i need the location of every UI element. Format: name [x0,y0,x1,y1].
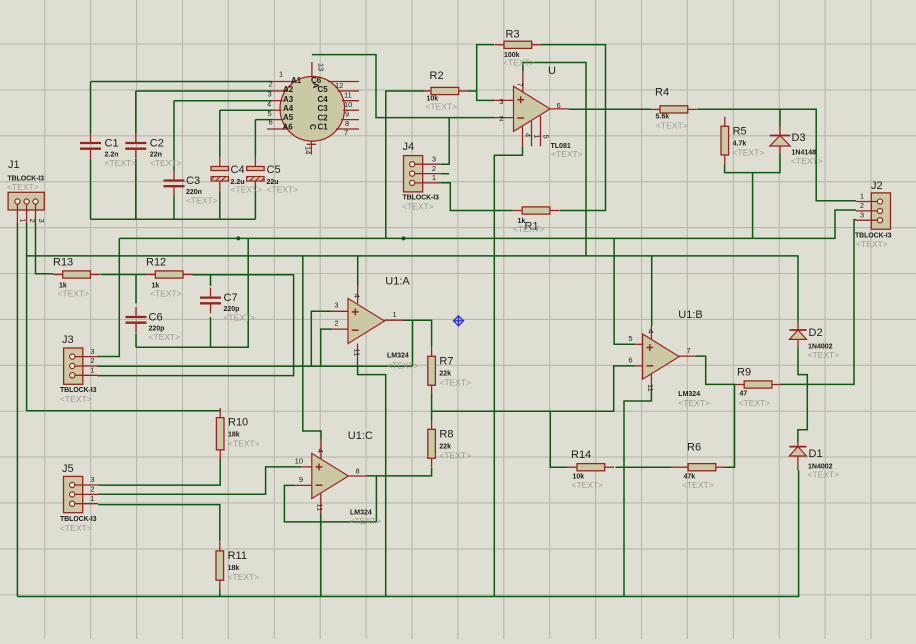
svg-text:9: 9 [299,475,303,484]
svg-text:3: 3 [499,97,503,106]
op-amp U1:A (LM324) [332,276,419,371]
svg-text:C2: C2 [318,114,329,123]
wire R4 to J2 pin1 [698,109,857,201]
svg-text:<TEXT>: <TEXT> [439,377,471,387]
svg-text:<TEXT>: <TEXT> [228,572,260,582]
wire RN pin4 to C4 top [220,109,272,111]
wire C5 top lead [254,120,256,157]
svg-text:C2: C2 [150,138,164,150]
svg-text:C4: C4 [318,95,329,104]
svg-text:R7: R7 [439,355,453,367]
svg-text:4: 4 [524,133,533,137]
svg-text:<TEXT>: <TEXT> [656,121,688,131]
svg-text:1: 1 [19,219,28,223]
op-amp U1:C (LM324) [295,430,382,526]
wire U1:A pin4 riser [357,256,359,286]
svg-text:C1: C1 [105,138,119,150]
capacitor C7 [200,288,255,323]
wire TL081 out to R4 [569,108,652,110]
wire U1:A out [403,320,432,347]
wire U1:C pin4 riser [303,256,321,440]
connector J1 (TBLOCK-I3) [7,159,46,223]
svg-text:R4: R4 [655,87,669,99]
wire C6 bottom lead [135,334,137,348]
wire C4 bottom lead [219,191,221,220]
wire U1:C fb drop [375,476,377,522]
svg-text:13: 13 [317,63,326,71]
svg-text:2: 2 [860,201,864,210]
connector J3 (TBLOCK-I3) [60,334,97,404]
resistor R8 [428,420,471,468]
svg-text:1: 1 [90,494,94,503]
wire C3 bottom lead [173,196,175,219]
svg-text:2: 2 [499,114,503,123]
svg-text:LM324: LM324 [678,391,700,398]
wire C6 top lead [135,275,137,304]
svg-text:R2: R2 [430,70,444,82]
wire RN pin1 to C1 top [91,81,273,83]
svg-text:<TEXT>: <TEXT> [150,289,182,299]
resistor R13 [53,257,100,299]
svg-text:R9: R9 [737,367,751,379]
svg-text:J2: J2 [871,180,883,192]
svg-text:C5: C5 [267,164,281,176]
svg-text:<TEXT>: <TEXT> [513,224,545,234]
resistor R3 [495,29,542,68]
wire J3 pin3 riser [97,238,119,356]
resistor R6 [672,442,725,491]
svg-text:8: 8 [356,467,360,476]
svg-text:6: 6 [269,117,273,126]
wire D2 bottom [798,348,807,385]
svg-text:<TEXT>: <TEXT> [739,398,771,408]
svg-text:14: 14 [303,146,312,154]
capacitor C2 [125,133,181,168]
wire ground bus [17,471,798,597]
svg-text:J3: J3 [62,334,74,346]
diode D2 [789,322,839,360]
svg-text:3: 3 [334,301,338,310]
svg-text:47: 47 [740,391,748,398]
svg-text:6: 6 [557,101,561,110]
svg-text:<TEXT>: <TEXT> [267,185,299,195]
svg-text:TBLOCK-I3: TBLOCK-I3 [60,387,97,394]
svg-text:4: 4 [316,449,325,453]
svg-text:4.7k: 4.7k [733,140,747,147]
resistor R1 [513,207,560,234]
svg-text:11: 11 [646,384,655,392]
wire J5 pin3 to R10 [98,459,220,486]
wire R13 to R12 [101,274,146,276]
svg-text:<TEXT>: <TEXT> [426,102,458,112]
wire J1 pin1 down [16,223,18,597]
svg-text:3: 3 [90,475,94,484]
svg-text:<TEXT>: <TEXT> [856,239,888,249]
svg-text:C3: C3 [186,175,200,187]
wire pin13 to TL081 pin2 [312,55,494,118]
resistor R2 [422,70,469,112]
svg-text:1: 1 [533,135,542,139]
svg-text:10: 10 [295,457,303,466]
wire R5 bottom [725,154,780,173]
svg-text:2: 2 [90,356,94,365]
svg-text:<TEXT>: <TEXT> [439,450,471,460]
svg-text:8: 8 [345,119,349,128]
svg-text:7: 7 [344,128,348,137]
svg-text:<TEXT>: <TEXT> [350,516,382,526]
wire J1 pin3 to R13 [36,223,54,274]
svg-text:5: 5 [628,334,632,343]
op-amp U1:B (LM324) [628,309,710,408]
wire RN pin5 to C5 top [255,119,272,121]
wire C5 bottom lead [254,191,256,220]
wire U1:B pin4 riser [651,256,653,326]
wire R11 bottom [219,590,221,597]
svg-text:4: 4 [267,99,271,108]
svg-text:A6: A6 [283,122,294,131]
wire C6C7 bottom link [136,238,248,347]
diode D3 [770,126,823,166]
wire R3 left to TL081 pin3 [477,45,494,101]
diode D1 [789,442,839,480]
svg-text:4: 4 [353,294,362,298]
svg-text:<TEXT>: <TEXT> [231,185,263,195]
capacitor C6 [126,307,181,342]
svg-text:<TEXT>: <TEXT> [682,480,714,490]
wire rail net2 [119,210,856,238]
wire J4 pin2 stub [440,173,449,175]
svg-text:7: 7 [687,346,691,355]
wire C1 top lead [90,82,92,134]
capacitor C3 [164,171,218,206]
wire U1:B pin5 [614,238,635,344]
resistor R14 [568,449,615,490]
svg-text:<TEXT>: <TEXT> [60,394,92,404]
svg-text:<TEXT>: <TEXT> [572,480,604,490]
svg-text:TBLOCK-I3: TBLOCK-I3 [60,516,97,523]
wire U1:A pin3 drop [311,311,332,366]
svg-text:U1:A: U1:A [385,276,410,288]
wire R6 right riser [723,384,734,467]
svg-text:R3: R3 [506,29,520,41]
connector J2 (TBLOCK-I3) [855,180,892,249]
svg-text:1: 1 [279,70,283,79]
resistor R10 [216,408,259,459]
wire U1:A pin2 drop [321,329,332,366]
svg-text:1: 1 [432,173,436,182]
svg-text:<TEXT>: <TEXT> [150,158,182,168]
svg-text:3: 3 [90,347,94,356]
svg-text:22k: 22k [439,370,451,377]
svg-text:3: 3 [268,89,272,98]
svg-text:2: 2 [90,485,94,494]
svg-text:<TEXT>: <TEXT> [387,361,419,371]
svg-text:1: 1 [860,192,864,201]
wire R7-R8 node to U1:B pin6 [432,366,636,420]
svg-text:J5: J5 [62,463,74,475]
svg-text:7: 7 [515,83,524,87]
svg-text:11: 11 [352,349,361,357]
svg-text:<TEXT>: <TEXT> [791,156,823,166]
capacitor C1 [80,133,136,168]
svg-text:<TEXT>: <TEXT> [551,149,583,159]
svg-text:2: 2 [28,219,37,223]
tube network U2 (14-pin round) [267,62,359,155]
svg-text:R12: R12 [146,257,166,269]
svg-text:9: 9 [345,110,349,119]
svg-text:A: A [311,83,320,89]
svg-text:22k: 22k [439,443,451,450]
wire U1:A out drop [412,320,414,366]
wire R14 to R6 [616,466,672,468]
svg-text:18k: 18k [228,565,240,572]
wire rail net1 to D2 [27,256,798,322]
svg-text:A4: A4 [283,104,294,113]
svg-text:R13: R13 [53,257,73,269]
svg-text:D2: D2 [809,327,823,339]
wire R2 left riser [386,91,424,238]
wire R5-D3 node drop [752,173,754,239]
svg-text:C4: C4 [231,164,245,176]
wire C2 bottom lead [135,159,137,219]
wire J1 pin2 down to R10 line [27,223,221,411]
svg-text:6: 6 [628,356,632,365]
connector J4 (TBLOCK-I3) [402,141,440,212]
svg-text:<TEXT>: <TEXT> [503,58,535,68]
wire J3 pin2 input net [97,365,412,367]
wire C2 top lead [135,91,137,133]
wire U1:C pin11 to bus [320,514,322,597]
svg-text:A1: A1 [291,76,302,85]
svg-text:<TEXT>: <TEXT> [149,332,181,342]
wire J4 pin1 to R1 [440,183,512,211]
svg-text:3: 3 [432,154,436,163]
wire D3 top lead [779,109,781,126]
wire R12 right to J3 pin1 [97,275,293,376]
svg-text:<TEXT>: <TEXT> [808,470,840,480]
svg-text:R11: R11 [228,550,247,562]
wire C3 top lead [173,101,175,171]
wire U1:A pin11 link [358,366,386,596]
wire RN pin2 to C2 top [136,90,272,92]
svg-text:5: 5 [542,135,551,139]
svg-text:J1: J1 [8,159,20,171]
wire R1 right to R3 right [541,45,606,211]
svg-text:A2: A2 [283,85,294,94]
resistor R12 [146,257,193,299]
wire U1:C pin10 [98,467,301,494]
resistor R9 [735,367,782,409]
svg-text:1: 1 [90,366,94,375]
op-amp U (TL081) [494,65,583,159]
svg-text:<TEXT>: <TEXT> [186,196,218,206]
svg-text:C1: C1 [318,122,329,131]
svg-text:18k: 18k [228,432,240,439]
svg-text:2: 2 [334,319,338,328]
svg-text:R6: R6 [687,442,701,454]
svg-text:<TEXT>: <TEXT> [678,398,710,408]
svg-text:3: 3 [860,210,864,219]
junction dot on net2 rail B [402,236,406,240]
connector J5 (TBLOCK-I3) [60,463,98,533]
svg-text:<TEXT>: <TEXT> [105,158,137,168]
svg-text:C: C [308,124,317,130]
svg-text:1: 1 [393,310,397,319]
wire U1:B out to R9 [695,356,735,384]
wire U1:B pin11 to bus [624,391,651,597]
wire U1:C pin9 loop [284,485,376,522]
svg-text:LM324: LM324 [387,353,409,360]
svg-text:<TEXT>: <TEXT> [402,202,434,212]
wire R2 right [468,90,477,92]
svg-text:5.6k: 5.6k [656,114,670,121]
origin marker [454,316,464,326]
wire RN pin3 to C3 top [174,100,272,102]
svg-text:R8: R8 [439,428,453,440]
svg-text:C6: C6 [149,312,163,324]
svg-text:U1:B: U1:B [678,309,702,321]
wire R9 right to J2 pin3 [780,220,856,385]
wire C7 top lead [210,275,212,286]
svg-text:C3: C3 [318,104,329,113]
resistor R5 [721,117,764,165]
svg-text:11: 11 [344,91,352,100]
svg-text:3: 3 [37,219,46,223]
svg-text:10: 10 [344,100,352,109]
svg-text:<TEXT>: <TEXT> [808,350,840,360]
svg-text:R5: R5 [733,125,747,137]
capacitor C5 (polarized) [247,157,299,195]
svg-text:D3: D3 [792,132,806,144]
svg-text:2: 2 [432,164,436,173]
wire C4 top lead [219,110,221,156]
svg-text:TBLOCK-I3: TBLOCK-I3 [403,195,440,202]
svg-text:<TEXT>: <TEXT> [228,439,260,449]
svg-text:<TEXT>: <TEXT> [60,523,92,533]
svg-text:<TEXT>: <TEXT> [7,182,39,192]
svg-text:11: 11 [316,504,325,512]
svg-text:R10: R10 [228,417,248,429]
svg-text:A3: A3 [283,95,294,104]
svg-text:A5: A5 [283,113,294,122]
wire TL081 pin7 riser [523,63,586,256]
svg-text:2: 2 [269,80,273,89]
svg-text:D1: D1 [809,448,823,460]
svg-text:<TEXT>: <TEXT> [58,289,90,299]
resistor R11 [216,541,259,589]
junction dot on net2 rail A [236,236,240,240]
wire cap bottom bus [91,218,256,220]
svg-text:<TEXT>: <TEXT> [733,147,765,157]
svg-text:12: 12 [335,81,343,90]
svg-text:R14: R14 [571,449,591,461]
capacitor C4 (polarized) [211,157,262,195]
svg-text:J4: J4 [403,141,415,153]
wire D1 top [798,384,807,442]
wire R14 left riser [550,411,567,467]
wire J5 pin1 to R11 [98,505,220,541]
wire R8 bottom to U1:C out [367,468,432,476]
wire C1 bottom lead [90,159,92,219]
resistor R7 [428,347,471,395]
resistor R4 [651,87,698,131]
wire C7 bottom lead [210,317,212,347]
wire J4 pin3 riser [440,118,449,165]
svg-text:4: 4 [646,329,655,333]
svg-text:U: U [548,65,556,77]
wire TL081 pin4 to bus [494,146,522,596]
svg-text:<TEXT>: <TEXT> [224,313,256,323]
svg-text:U1:C: U1:C [348,430,373,442]
svg-text:C7: C7 [224,292,238,304]
